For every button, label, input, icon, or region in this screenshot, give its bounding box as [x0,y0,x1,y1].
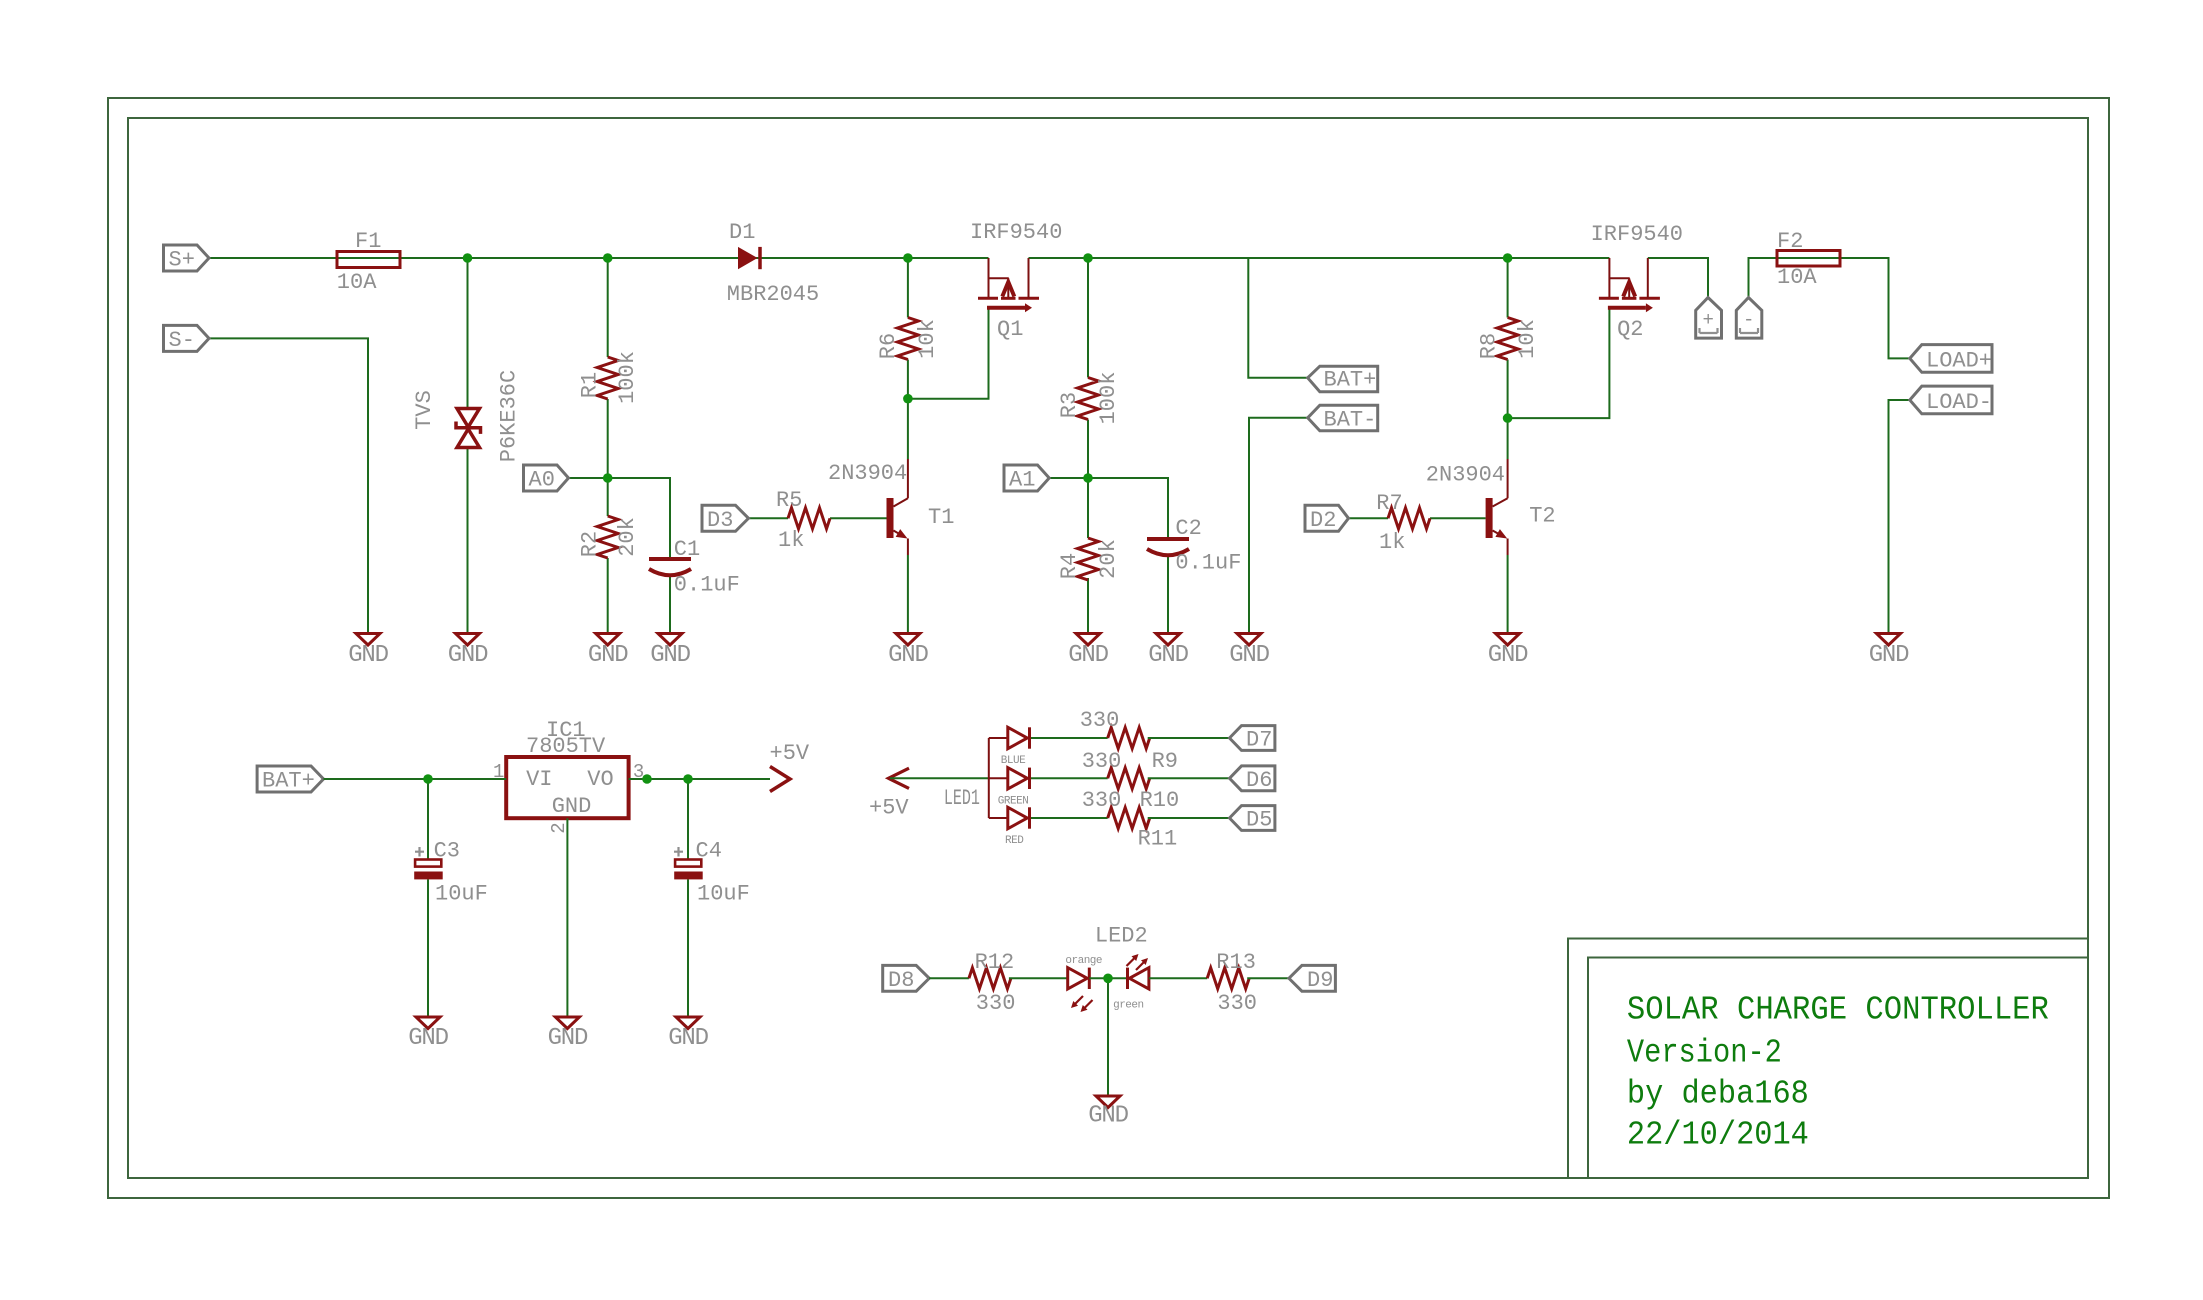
capacitor C3 10uF polarized [414,839,488,907]
svg-text:GND: GND [408,1025,448,1052]
svg-text:330: 330 [1080,708,1120,733]
wire R2 bottom to ground [607,558,609,634]
resistor R6 10k [876,318,940,360]
flag A1 [1004,465,1049,493]
flag BAT+ [1308,366,1378,392]
svg-text:T1: T1 [928,505,954,530]
svg-text:RED: RED [1005,835,1024,847]
wire BAT+ tap from rail [1248,258,1307,378]
svg-text:R9: R9 [1152,749,1178,774]
svg-text:R13: R13 [1216,950,1256,975]
LED LED1 green element [998,768,1030,808]
svg-text:F2: F2 [1777,229,1803,254]
resistor R10 330 [1082,749,1180,813]
node rail TVS [463,253,473,263]
LED LED1 blue element [1001,727,1030,767]
wire green LED to R10 [1031,777,1108,779]
wire D3 flag to R5 [749,517,789,519]
ground T1 [888,634,928,670]
svg-text:+: + [1703,309,1714,331]
flag D5 [1230,806,1275,833]
resistor R4 20k [1057,538,1121,580]
svg-text:20k: 20k [615,517,640,557]
svg-text:LED1: LED1 [944,786,980,811]
svg-text:F1: F1 [355,229,381,254]
svg-text:330: 330 [1082,788,1122,813]
svg-text:VI: VI [526,767,552,792]
svg-text:MBR2045: MBR2045 [727,282,819,307]
svg-text:VO: VO [587,767,613,792]
wire R8 top pin from rail [1507,258,1509,318]
wire gate node to Q2 gate [1508,308,1610,418]
LED LED2 green element [1113,954,1149,1011]
wire T1 emitter to ground [907,555,909,634]
node Q2 gate [1503,413,1513,423]
ground S- [348,634,388,670]
svg-text:10k: 10k [1515,319,1540,359]
wire R8 bottom to gate node [1507,360,1509,419]
svg-text:GND: GND [650,642,690,669]
svg-text:Version-2: Version-2 [1627,1035,1782,1072]
wire node A0 to C1 [608,478,670,558]
svg-text:330: 330 [1082,749,1122,774]
wire gate node down to T1 collector [907,399,909,459]
svg-text:GND: GND [668,1025,708,1052]
flag S- [164,325,210,353]
node rail R8 [1503,253,1513,263]
wire IC1 GND pin to ground [566,818,568,1016]
svg-text:BAT+: BAT+ [262,769,315,794]
node LED2 center [1103,974,1113,984]
svg-text:green: green [1113,999,1144,1011]
svg-text:D1: D1 [729,220,755,245]
wire TVS column top [467,258,469,408]
wire R10 to D6 [1148,777,1230,779]
wire LED2 node to ground [1107,978,1109,1096]
svg-text:100k: 100k [615,351,640,404]
svg-text:GND: GND [1229,642,1269,669]
svg-text:0.1uF: 0.1uF [674,573,740,598]
flag D6 [1230,766,1275,793]
svg-text:GND: GND [348,642,388,669]
svg-text:BAT-: BAT- [1324,407,1377,432]
wire BAT+ flag to IC1 VI [324,778,507,780]
svg-text:D5: D5 [1246,808,1272,833]
wire R11 to D5 [1148,817,1230,819]
svg-text:BAT+: BAT+ [1324,367,1377,392]
ground C1 [650,634,690,670]
ground C3 [408,1017,448,1052]
resistor R13 330 [1207,950,1257,1016]
frame inner border [128,118,2088,1178]
resistor R2 20k [578,516,641,558]
ground LOAD- [1869,634,1909,670]
svg-text:TVS: TVS [412,390,437,430]
svg-text:orange: orange [1065,955,1102,967]
flag LOAD- [1910,386,1992,415]
wire C4 to ground [687,879,689,1016]
svg-text:+5V: +5V [869,796,909,821]
wire D2 flag to R7 [1349,517,1389,519]
capacitor C1 0.1uF [649,537,740,598]
LED LED2 orange element [1065,924,1147,1013]
svg-text:-: - [1743,309,1754,331]
wire R7 to T2 base [1430,517,1486,519]
ground R2 [588,634,628,670]
svg-text:Q2: Q2 [1617,317,1643,342]
ground LED2 [1088,1096,1128,1130]
wire -jumper to F2 to LOAD+ corner [1749,258,1910,358]
wire R6 bottom to gate node [907,360,909,399]
resistor R1 100k [578,351,641,404]
node rail R1 [603,253,613,263]
svg-text:IRF9540: IRF9540 [970,220,1062,245]
svg-text:2N3904: 2N3904 [828,461,907,486]
svg-text:R4: R4 [1057,553,1082,579]
flag S+ [164,245,210,273]
svg-text:D8: D8 [888,968,914,993]
svg-text:10A: 10A [1777,265,1817,290]
svg-text:GND: GND [1068,642,1108,669]
svg-text:T2: T2 [1529,504,1555,529]
wire A1 flag to node [1049,477,1088,479]
ground TVS [448,634,488,670]
svg-text:20k: 20k [1096,539,1121,579]
svg-text:A0: A0 [529,468,555,493]
wire LED2 to R13 [1149,977,1207,979]
wire gate node to Q1 gate [908,308,989,399]
resistor R3 100k [1057,372,1121,425]
wire rail Q1 drain to Q2 source [1029,257,1610,259]
wire S+ rail from S+ to Q1 source [209,257,989,259]
wire R3 top pin from rail [1087,258,1089,378]
svg-text:1k: 1k [1379,530,1405,555]
transistor Q2 IRF9540 p-mosfet [1591,222,1683,342]
wire R9 to D7 [1148,737,1230,739]
wire gate node down to T2 collector [1507,418,1509,459]
power +5V arrow LED1 feed [869,768,909,820]
wire IC1 VO to +5V arrow [629,778,770,780]
svg-text:D2: D2 [1310,508,1336,533]
svg-text:C4: C4 [696,839,722,864]
svg-text:R1: R1 [578,372,603,398]
transistor T1 2N3904 npn [828,459,954,555]
svg-text:GND: GND [1088,1103,1128,1130]
power +5V arrow output [770,741,810,792]
diode D1 MBR2045 [727,220,819,307]
fuse F2 [1777,229,1840,290]
svg-text:R3: R3 [1057,392,1082,418]
ground C4 [668,1017,708,1052]
svg-text:330: 330 [1217,991,1257,1016]
flag LOAD+ [1910,345,1992,374]
resistor R5 1k [776,488,830,553]
frame outer border [108,98,2109,1198]
flag D7 [1230,726,1275,753]
capacitor C2 0.1uF [1147,516,1241,576]
ground IC1 [548,1017,588,1052]
jumper terminal - [1736,298,1762,339]
svg-text:10k: 10k [915,319,940,359]
ground BAT- [1229,634,1269,670]
svg-text:GND: GND [1148,642,1188,669]
wire node A1 to C2 [1088,478,1168,538]
resistor R11 330 [1082,788,1178,852]
wire Q2 drain to +jumper [1648,258,1708,298]
svg-text:LED2: LED2 [1095,924,1148,949]
wire BAT- to ground [1249,418,1308,634]
node rail R3 [1083,253,1093,263]
wire TVS column bottom to ground [467,449,469,634]
svg-text:7805TV: 7805TV [526,734,606,759]
svg-text:D7: D7 [1246,728,1272,753]
resistor R7 1k [1376,491,1430,555]
resistor R8 10k [1477,318,1541,360]
wire blue LED to R9 [1031,737,1108,739]
ground C2 [1148,634,1188,670]
node A0 [603,473,613,483]
svg-text:R10: R10 [1140,788,1180,813]
transistor T2 2N3904 npn [1426,459,1556,555]
wire red LED to R11 [1031,817,1108,819]
wire C3 to ground [427,879,429,1016]
svg-text:A1: A1 [1009,468,1035,493]
svg-text:GND: GND [1488,642,1528,669]
LED LED1 common anode bracket [944,738,1008,818]
title block outer line [1568,939,2088,1179]
wire A0 flag to node [569,477,608,479]
svg-text:R2: R2 [578,531,603,557]
svg-text:LOAD-: LOAD- [1926,390,1992,415]
jumper terminal + [1696,298,1722,339]
node C3 [423,774,433,784]
svg-text:10A: 10A [337,270,377,295]
flag D9 [1289,965,1336,992]
flag D3 [702,505,749,533]
svg-text:2N3904: 2N3904 [1426,463,1505,488]
svg-text:by deba168: by deba168 [1627,1076,1809,1113]
svg-text:LOAD+: LOAD+ [1926,349,1992,374]
wire D8 to R12 [929,977,969,979]
wire C1 bottom to ground [669,576,671,634]
wire R6 top pin from rail [907,258,909,318]
svg-text:GND: GND [548,1025,588,1052]
svg-text:Q1: Q1 [997,317,1023,342]
wire LOAD- to ground [1889,400,1910,634]
svg-text:D6: D6 [1246,768,1272,793]
svg-text:330: 330 [976,991,1016,1016]
svg-text:S-: S- [169,328,195,353]
svg-text:IRF9540: IRF9540 [1591,222,1683,247]
svg-text:S+: S+ [169,248,195,273]
resistor R12 330 [969,950,1016,1016]
fuse F1 [337,229,400,295]
wire R12 to LED2 orange [1009,977,1068,979]
svg-text:22/10/2014: 22/10/2014 [1627,1117,1809,1154]
wire +5V to LED1 [890,777,989,779]
svg-text:GND: GND [448,642,488,669]
svg-text:C3: C3 [434,839,460,864]
ground T2 [1488,634,1528,670]
svg-text:R8: R8 [1477,333,1502,359]
svg-text:GREEN: GREEN [998,795,1029,807]
svg-text:GND: GND [888,642,928,669]
TVS suppressor P6KE36C [412,370,522,462]
svg-text:R7: R7 [1376,491,1402,516]
node Q1 gate [903,394,913,404]
svg-text:BLUE: BLUE [1001,755,1026,767]
wire C2 bottom to ground [1167,556,1169,634]
wire R1 bottom to A0 node to R2 top [607,399,609,516]
svg-text:R6: R6 [876,333,901,359]
wire C4 branch [687,779,689,860]
transistor Q1 IRF9540 p-mosfet [970,220,1062,342]
svg-text:C1: C1 [674,537,700,562]
wire S- run [209,338,368,633]
flag BAT- [1308,405,1378,432]
flag D2 [1305,505,1349,533]
node IC1 out [642,774,652,784]
svg-text:10uF: 10uF [435,881,488,906]
node A1 [1083,473,1093,483]
svg-text:1k: 1k [778,528,804,553]
voltage regulator IC1 7805TV [493,718,644,834]
svg-text:P6KE36C: P6KE36C [497,370,522,462]
svg-text:GND: GND [588,642,628,669]
svg-text:R12: R12 [975,950,1015,975]
node C4 [683,774,693,784]
resistor R9 330 [1080,708,1178,774]
svg-text:GND: GND [552,794,592,819]
wire R3 bottom to A1 node to R4 top [1087,420,1089,539]
flag BAT+ input [257,766,323,794]
svg-text:100k: 100k [1096,372,1121,425]
svg-text:+5V: +5V [770,741,810,766]
capacitor C4 10uF polarized [674,839,750,907]
svg-text:D9: D9 [1307,968,1333,993]
wire R1 top pin from rail [607,258,609,357]
flag D8 [883,965,930,992]
svg-text:C2: C2 [1175,516,1201,541]
wire C3 branch [427,779,429,860]
svg-text:0.1uF: 0.1uF [1175,551,1241,576]
flag A0 [524,465,569,493]
ground R4 [1068,634,1108,670]
svg-text:D3: D3 [707,508,733,533]
svg-text:SOLAR CHARGE CONTROLLER: SOLAR CHARGE CONTROLLER [1627,992,2049,1029]
wire T2 emitter to ground [1507,555,1509,634]
wire R4 bottom to ground [1087,578,1089,634]
wire R5 to T1 base [830,517,887,519]
node rail R6 [903,253,913,263]
title block inner line [1588,958,2088,1179]
wire R13 to D9 [1247,977,1289,979]
svg-text:R5: R5 [776,488,802,513]
svg-text:R11: R11 [1138,827,1178,852]
LED LED1 red element [1005,807,1030,847]
wire LED2 center node [1089,977,1127,979]
svg-text:10uF: 10uF [697,881,750,906]
svg-text:GND: GND [1869,642,1909,669]
